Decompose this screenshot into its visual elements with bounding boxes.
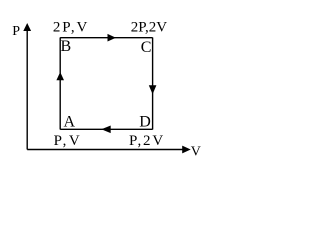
wire D-A (bottom edge of cycle)	[60, 128, 152, 130]
svg-text:P,V: P,V	[54, 133, 82, 149]
P axis line	[26, 27, 28, 150]
P axis arrowhead	[23, 23, 31, 31]
svg-text:2P,2V: 2P,2V	[131, 19, 167, 35]
wire A-B (left edge of cycle)	[59, 38, 61, 130]
svg-text:V: V	[191, 144, 201, 159]
svg-text:B: B	[61, 38, 72, 55]
svg-text:P,2V: P,2V	[129, 133, 165, 149]
V axis arrowhead	[182, 146, 191, 154]
svg-text:2P,V: 2P,V	[53, 19, 89, 35]
svg-text:D: D	[139, 114, 151, 131]
V axis line	[27, 149, 185, 151]
arrow A to B (up)	[56, 72, 64, 80]
wire C-D (right edge of cycle)	[152, 38, 154, 130]
arrow B to C (right)	[108, 34, 116, 42]
svg-text:P: P	[12, 24, 20, 39]
wire B-C (top edge of cycle)	[60, 37, 152, 39]
svg-text:C: C	[141, 39, 152, 56]
arrow C to D (down)	[149, 85, 157, 94]
svg-text:A: A	[64, 114, 76, 131]
arrow D to A (left)	[101, 126, 110, 134]
